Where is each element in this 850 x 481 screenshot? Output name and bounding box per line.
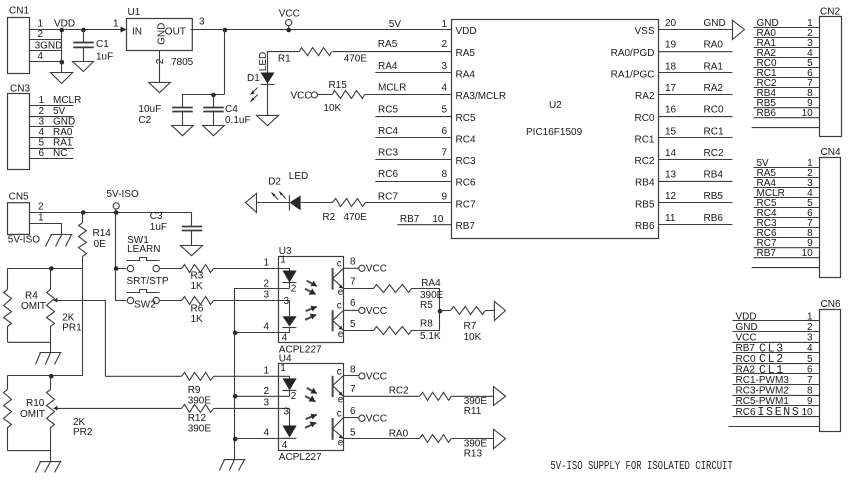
U3 pin labels inside [280, 255, 297, 344]
svg-text:RB7: RB7 [736, 343, 756, 354]
svg-text:R1: R1 [278, 54, 291, 65]
svg-text:RC2: RC2 [634, 156, 654, 167]
svg-text:RC1: RC1 [704, 126, 724, 137]
svg-text:0E: 0E [94, 239, 107, 250]
power VCC tap for R15 [291, 90, 333, 101]
svg-text:R6: R6 [191, 304, 204, 315]
svg-text:RA1: RA1 [53, 138, 73, 149]
svg-text:2: 2 [155, 58, 166, 64]
svg-text:RC1-PWM3: RC1-PWM3 [736, 375, 790, 386]
U2 right pin wires [659, 18, 733, 224]
svg-text:RA1: RA1 [704, 61, 724, 72]
wire R6 to U3 pin 3 [214, 300, 290, 302]
svg-text:VCC: VCC [366, 371, 387, 382]
node C1 tap [81, 28, 86, 33]
svg-text:RB7: RB7 [757, 248, 777, 259]
svg-text:RC5: RC5 [456, 113, 476, 124]
svg-text:10: 10 [432, 214, 444, 225]
svg-text:7: 7 [350, 384, 356, 395]
svg-text:RA5: RA5 [456, 48, 476, 59]
ground U1 [149, 82, 171, 92]
connector CN6 [729, 299, 841, 432]
svg-text:RB7: RB7 [400, 214, 420, 225]
svg-text:3: 3 [284, 296, 290, 307]
svg-text:8: 8 [807, 386, 813, 397]
svg-text:2: 2 [38, 29, 44, 40]
svg-text:2: 2 [441, 39, 447, 50]
resistor R10 OMIT [4, 390, 46, 451]
resistor R7 10K [440, 307, 495, 343]
ground C1 [73, 62, 94, 72]
svg-text:PR2: PR2 [73, 427, 93, 438]
svg-text:CN1: CN1 [9, 6, 29, 17]
svg-text:VDD: VDD [456, 26, 477, 37]
svg-text:C3: C3 [150, 211, 163, 222]
svg-text:1K: 1K [191, 281, 204, 292]
chassis ground cathode bus [219, 460, 245, 471]
resistor R9 390E [182, 372, 214, 406]
pushbutton SW1 LEARN [127, 235, 161, 272]
node C4 tap [211, 93, 216, 98]
svg-text:R3: R3 [191, 271, 204, 282]
svg-text:3: 3 [807, 333, 813, 344]
svg-text:e: e [338, 287, 344, 298]
svg-text:RC4: RC4 [378, 126, 398, 137]
node 5V-ISO junction [114, 210, 119, 215]
svg-text:16: 16 [665, 105, 677, 116]
svg-text:11: 11 [665, 213, 676, 224]
svg-text:D1: D1 [247, 73, 260, 84]
svg-text:RA1/PGC: RA1/PGC [611, 69, 655, 80]
svg-text:GND: GND [156, 23, 167, 45]
wire wiper to U4 pin 1 [105, 375, 289, 377]
LED D2 [257, 171, 309, 210]
svg-text:SRT/STP: SRT/STP [127, 276, 169, 287]
svg-text:C4: C4 [225, 104, 238, 115]
wire R3 to U3 pin 1 [214, 268, 290, 270]
svg-text:R15: R15 [329, 80, 348, 91]
svg-text:4: 4 [807, 343, 813, 354]
off-page arrow R7 output [494, 301, 505, 320]
svg-text:R14: R14 [93, 228, 112, 239]
connector CN1 [8, 6, 30, 74]
svg-text:LEARN: LEARN [127, 244, 160, 255]
svg-text:390E: 390E [188, 423, 212, 434]
svg-text:10uF: 10uF [138, 104, 161, 115]
svg-text:RA0/PGD: RA0/PGD [611, 48, 655, 59]
svg-text:RC0: RC0 [704, 105, 724, 116]
svg-text:R2: R2 [322, 212, 335, 223]
stub RA4 pin 3 [375, 61, 451, 73]
svg-text:10: 10 [802, 108, 814, 119]
LED D1 [247, 52, 275, 116]
wire U3 pin2 corner [235, 289, 290, 333]
svg-text:VCC: VCC [366, 414, 387, 425]
chassis ground PR2 [35, 462, 61, 473]
optocoupler U4 ACPL227 [279, 354, 344, 463]
svg-text:5: 5 [350, 427, 356, 438]
optocoupler U3 ACPL227 [279, 246, 344, 355]
wire R4 PR1 bottom [8, 342, 51, 352]
svg-text:9: 9 [441, 192, 447, 203]
stub RC4 pin 6 [375, 126, 451, 138]
svg-text:0.1uF: 0.1uF [225, 115, 251, 126]
net label 5V pin1 [389, 19, 448, 30]
ground C2 [172, 126, 194, 136]
svg-text:CN3: CN3 [10, 83, 30, 94]
wire CN1 pin2 [30, 39, 62, 41]
svg-text:VDD: VDD [736, 311, 757, 322]
resistor R13 390E [420, 435, 494, 460]
svg-text:2: 2 [39, 106, 45, 117]
svg-text:7805: 7805 [171, 57, 194, 68]
svg-text:RC3: RC3 [378, 148, 398, 159]
svg-text:3: 3 [39, 116, 45, 127]
wire CN1 pin4 [30, 61, 62, 63]
svg-text:RC1: RC1 [634, 134, 654, 145]
svg-text:RC6: RC6 [456, 178, 476, 189]
ground D1 [257, 115, 279, 125]
U1 pin 3 label [199, 16, 205, 27]
svg-text:1uF: 1uF [96, 51, 113, 62]
svg-text:14: 14 [665, 148, 677, 159]
svg-text:1: 1 [263, 257, 269, 268]
svg-text:R9: R9 [188, 385, 201, 396]
wire U4 pin4 [235, 438, 290, 440]
svg-text:RA4: RA4 [456, 69, 476, 80]
svg-text:15: 15 [665, 126, 677, 137]
node PR2 top junction [49, 374, 54, 379]
svg-text:e: e [338, 437, 344, 448]
svg-text:PIC16F1509: PIC16F1509 [526, 127, 583, 138]
trimpot PR2 2K [47, 376, 93, 451]
svg-text:RB6: RB6 [704, 213, 724, 224]
wire R4 PR1 top rail [8, 268, 83, 270]
svg-text:470E: 470E [344, 54, 368, 65]
ground C4 [203, 126, 225, 136]
svg-text:RC2: RC2 [704, 148, 724, 159]
svg-text:VCC: VCC [366, 306, 387, 317]
svg-text:6: 6 [39, 148, 45, 159]
node U3 pin4 junction [233, 331, 238, 336]
U4 output transistor upper [333, 366, 344, 405]
svg-text:RA4: RA4 [378, 61, 398, 72]
svg-text:5: 5 [807, 354, 813, 365]
net label VDD [54, 19, 75, 30]
svg-text:VCC: VCC [291, 90, 312, 101]
resistor R1 470E [278, 48, 367, 65]
node R14 top junction [81, 210, 86, 215]
svg-text:VCC: VCC [736, 333, 757, 344]
resistor R4 OMIT [4, 269, 47, 343]
svg-text:RA4: RA4 [421, 278, 441, 289]
wire U3 pin5 to node [344, 311, 440, 331]
svg-text:4: 4 [263, 428, 269, 439]
node R5 R8 R7 junction [438, 309, 443, 314]
stub RC5 pin 5 [375, 104, 451, 116]
svg-text:NC: NC [53, 148, 67, 159]
svg-text:RA0: RA0 [53, 127, 73, 138]
svg-text:2: 2 [291, 391, 297, 402]
off-page arrow R11 output [494, 387, 506, 406]
svg-text:RC0: RC0 [634, 113, 654, 124]
svg-text:c: c [337, 366, 342, 377]
svg-text:8: 8 [350, 257, 356, 268]
U3 input LED upper [283, 268, 297, 288]
svg-text:5V-ISO SUPPLY FOR ISOLATED CIR: 5V-ISO SUPPLY FOR ISOLATED CIRCUIT [550, 459, 732, 473]
svg-text:VDD: VDD [54, 19, 75, 30]
svg-text:RA0: RA0 [704, 40, 724, 51]
wire SW1 to R3 [159, 268, 181, 270]
svg-text:RA2: RA2 [635, 91, 655, 102]
svg-text:LED: LED [258, 52, 269, 71]
wire RA5 to pin 2 [268, 52, 452, 73]
svg-text:ISENS: ISENS [758, 406, 801, 419]
svg-text:1uF: 1uF [150, 222, 167, 233]
node CN1 pin4 junction [60, 60, 65, 65]
power 5V-ISO symbol [107, 189, 139, 213]
connector CN5 [8, 191, 45, 245]
svg-text:2: 2 [263, 386, 269, 397]
regulator U1 7805 [127, 7, 194, 68]
U4 output transistor lower [333, 409, 344, 449]
wire cathode bus vertical [234, 333, 236, 460]
svg-text:6: 6 [441, 126, 447, 137]
svg-text:U2: U2 [549, 100, 562, 111]
wire U4 pin7 RC2 [344, 385, 420, 396]
resistor R3 1K [182, 265, 214, 293]
wire RC7 pin 9 [301, 192, 452, 203]
svg-text:5V-ISO: 5V-ISO [107, 189, 139, 200]
wire lower rail R10 PR2 [7, 376, 9, 390]
connector CN4 [752, 147, 841, 278]
svg-text:5: 5 [441, 104, 447, 115]
annotation 5V-ISO supply note [550, 459, 732, 473]
resistor R6 1K [182, 297, 214, 326]
svg-text:8: 8 [441, 169, 447, 180]
resistor R8 5.1K [374, 319, 441, 342]
svg-text:6: 6 [807, 364, 813, 375]
svg-text:2: 2 [38, 202, 44, 213]
svg-text:LED: LED [289, 171, 308, 182]
svg-text:3: 3 [441, 61, 447, 72]
svg-text:390E: 390E [188, 396, 212, 407]
svg-text:3: 3 [263, 398, 269, 409]
node U4 pin4 junction [233, 437, 238, 442]
stub RC6 pin 8 [375, 169, 451, 181]
svg-text:VSS: VSS [634, 26, 654, 37]
svg-text:7: 7 [441, 148, 447, 159]
svg-text:1: 1 [38, 213, 44, 224]
svg-text:RC2: RC2 [389, 385, 409, 396]
svg-text:RA2: RA2 [704, 83, 724, 94]
off-page arrow GND [733, 20, 745, 39]
svg-text:MCLR: MCLR [53, 95, 81, 106]
wire U1 output 5V rail [191, 29, 452, 31]
svg-text:CN2: CN2 [820, 7, 840, 18]
U4 pin labels outside [263, 364, 356, 438]
svg-text:U1: U1 [128, 7, 141, 18]
svg-text:RC0: RC0 [736, 354, 756, 365]
svg-text:4: 4 [282, 332, 288, 343]
svg-text:SW2: SW2 [134, 300, 156, 311]
resistor R14 0E [79, 213, 112, 257]
off-page arrow R13 output [494, 429, 506, 448]
svg-text:2: 2 [807, 322, 813, 333]
U1 input arrowhead pin 1 [113, 18, 127, 32]
U4 VCC tap pin 8 [344, 371, 388, 382]
svg-text:10: 10 [802, 248, 814, 259]
svg-text:18: 18 [665, 61, 677, 72]
svg-text:470E: 470E [344, 212, 368, 223]
svg-text:5V: 5V [389, 19, 402, 30]
svg-text:D2: D2 [268, 177, 281, 188]
CN1 pin labels [35, 19, 63, 62]
wire U4 pin2 [235, 395, 290, 397]
svg-text:1: 1 [807, 311, 813, 322]
U3 light arrows [305, 281, 317, 320]
svg-text:1: 1 [263, 365, 269, 376]
wire U4 pin5 RA0 [344, 428, 420, 439]
connector CN2 [752, 7, 842, 137]
svg-text:OUT: OUT [165, 27, 186, 38]
U4 pin labels inside [280, 363, 297, 451]
svg-text:RB7: RB7 [456, 221, 476, 232]
svg-text:7: 7 [807, 375, 813, 386]
ground CN1 [51, 62, 73, 84]
svg-text:RC3: RC3 [456, 156, 476, 167]
svg-text:e: e [338, 329, 344, 340]
wire CN1 pin1 VDD [30, 29, 62, 31]
svg-text:10K: 10K [323, 103, 341, 114]
svg-text:GND: GND [53, 116, 75, 127]
svg-text:3: 3 [284, 407, 290, 418]
U3 input LED lower [283, 300, 297, 332]
wire CN5 pin1 to ground [30, 224, 62, 235]
node switch feed junction [114, 266, 119, 271]
svg-text:19: 19 [665, 40, 677, 51]
svg-text:c: c [337, 259, 342, 270]
svg-text:5: 5 [39, 138, 45, 149]
capacitor C4 [203, 95, 250, 127]
svg-text:RC4: RC4 [456, 134, 476, 145]
svg-text:R13: R13 [464, 449, 483, 460]
svg-text:1: 1 [280, 363, 286, 374]
svg-text:RB5: RB5 [635, 199, 655, 210]
power VCC symbol [279, 8, 300, 29]
wire U3 pin7 RA4 [344, 278, 442, 311]
svg-text:RC7: RC7 [456, 199, 476, 210]
U1 pin 2 label [155, 58, 166, 64]
capacitor C1 [73, 30, 113, 63]
svg-text:RC5: RC5 [378, 104, 398, 115]
svg-text:RB4: RB4 [635, 178, 655, 189]
svg-text:RA3/MCLR: RA3/MCLR [456, 91, 507, 102]
svg-text:RB5: RB5 [704, 191, 724, 202]
svg-text:9: 9 [807, 396, 813, 407]
svg-text:4: 4 [38, 51, 44, 62]
node U4 pin2 junction [233, 394, 238, 399]
wire 5V-ISO rail [30, 212, 192, 214]
wire U1 GND pin 2 [159, 51, 161, 83]
U4 light arrows [305, 388, 317, 428]
node CN1 pin1 junction [60, 28, 65, 33]
svg-text:RB6: RB6 [757, 108, 777, 119]
wire switch feed vertical [116, 213, 127, 301]
svg-text:IN: IN [132, 27, 142, 38]
CN3 pin wires and labels [30, 95, 82, 159]
stub RB7 pin 10 [397, 214, 451, 225]
wire R14 bottom to lower rail [8, 257, 83, 376]
svg-text:C1: C1 [96, 39, 109, 50]
wire to C2 C4 [182, 30, 225, 95]
resistor R2 470E [322, 199, 367, 223]
svg-text:CN4: CN4 [821, 147, 841, 158]
resistor R5 390E [374, 285, 444, 311]
svg-text:RA0: RA0 [389, 428, 409, 439]
svg-text:MCLR: MCLR [378, 83, 406, 94]
resistor R12 390E [182, 404, 214, 434]
svg-text:13: 13 [665, 170, 677, 181]
svg-text:1: 1 [280, 255, 286, 266]
svg-text:3: 3 [199, 16, 205, 27]
svg-text:1: 1 [441, 19, 447, 30]
svg-text:4: 4 [441, 83, 447, 94]
wire R12 to U4 pin 3 [214, 407, 290, 409]
stub RC3 pin 7 [375, 148, 451, 160]
svg-text:e: e [338, 395, 344, 406]
svg-text:10K: 10K [464, 332, 482, 343]
svg-text:PR1: PR1 [62, 322, 82, 333]
svg-text:20: 20 [665, 18, 677, 29]
svg-text:5.1K: 5.1K [420, 331, 441, 342]
svg-text:c: c [337, 301, 342, 312]
svg-text:c: c [337, 409, 342, 420]
U4 input LED upper [283, 376, 297, 396]
svg-text:OMIT: OMIT [21, 301, 46, 312]
svg-text:2: 2 [291, 284, 297, 295]
wire U3 pin4 [235, 332, 290, 334]
svg-text:GND: GND [704, 18, 726, 29]
svg-text:1K: 1K [191, 314, 204, 325]
capacitor C2 [138, 95, 192, 127]
microcontroller U2 PIC16F1509 [452, 20, 659, 239]
svg-text:8: 8 [350, 364, 356, 375]
svg-text:RA5: RA5 [378, 39, 398, 50]
wire VDD to U1 input [62, 29, 122, 31]
svg-text:RB4: RB4 [704, 170, 724, 181]
wire CN1 tie vertical [61, 30, 63, 62]
svg-text:17: 17 [665, 83, 677, 94]
svg-text:CN5: CN5 [9, 191, 29, 202]
U3 output transistor upper [333, 259, 344, 299]
svg-text:1: 1 [113, 18, 119, 29]
svg-text:RB6: RB6 [635, 221, 655, 232]
svg-text:R11: R11 [464, 406, 482, 417]
node VCC junction on 5V wire [286, 28, 291, 33]
svg-text:6: 6 [350, 298, 356, 309]
svg-text:6: 6 [350, 406, 356, 417]
svg-text:3GND: 3GND [35, 40, 63, 51]
svg-text:R12: R12 [188, 413, 207, 424]
wire CN1 pin3 [30, 50, 62, 52]
svg-text:CN6: CN6 [821, 299, 841, 310]
svg-text:VCC: VCC [279, 8, 300, 19]
svg-text:1: 1 [39, 95, 45, 106]
trimpot PR1 2K [47, 269, 83, 343]
U3 VCC tap pin 6 [344, 306, 388, 317]
svg-text:RC6: RC6 [378, 169, 398, 180]
